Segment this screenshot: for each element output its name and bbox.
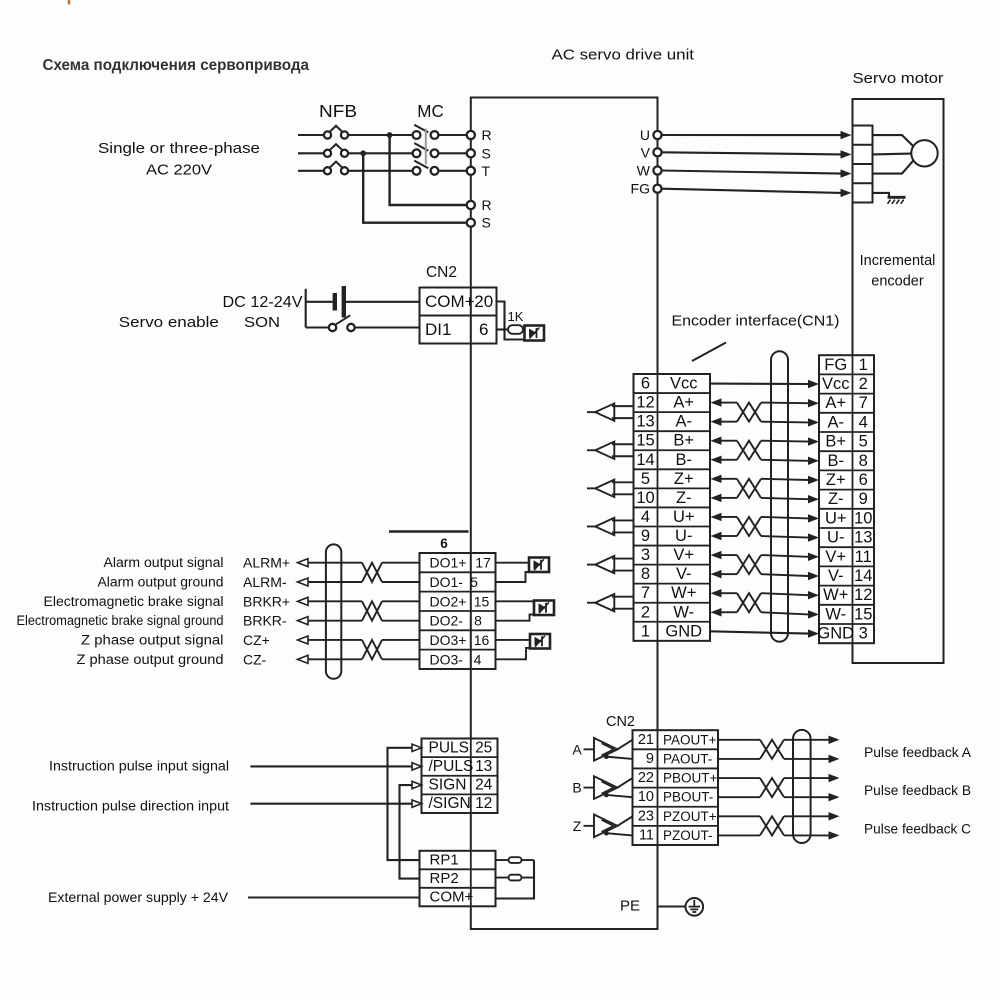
contactor MC linkage [425, 129, 427, 165]
svg-text:CN2: CN2 [606, 714, 635, 730]
svg-text:23: 23 [638, 808, 654, 824]
connector CN2 feedback table [633, 730, 719, 845]
svg-text:ALRM+: ALRM+ [243, 555, 290, 571]
receiver Z [587, 487, 595, 489]
terminal block motor [853, 126, 873, 203]
svg-text:W+: W+ [671, 584, 696, 602]
wire NFB-MC T [348, 170, 413, 172]
svg-text:10: 10 [638, 789, 654, 805]
svg-text:U+: U+ [825, 509, 847, 527]
receiver V [587, 564, 595, 566]
resistor RP1 [496, 859, 509, 861]
svg-text:8: 8 [641, 565, 650, 583]
svg-text:A-: A- [676, 413, 693, 431]
svg-text:B-: B- [828, 452, 845, 470]
wire pin20 loop [497, 302, 525, 340]
svg-text:12: 12 [475, 795, 492, 812]
wire PE [658, 905, 686, 907]
svg-text:9: 9 [859, 490, 868, 508]
wire NFB-MC S [348, 152, 413, 154]
svg-text:BRKR+: BRKR+ [243, 593, 290, 609]
svg-text:DI1: DI1 [425, 320, 451, 339]
receiver B [587, 449, 595, 451]
svg-text:W: W [637, 163, 651, 179]
svg-text:RP1: RP1 [430, 852, 459, 869]
svg-text:8: 8 [859, 452, 868, 470]
connector RP table [420, 851, 496, 907]
svg-text:U-: U- [827, 529, 844, 547]
ground motor frame [888, 196, 906, 199]
svg-text:Pulse feedback C: Pulse feedback C [864, 821, 971, 836]
breaker NFB pole S [324, 150, 331, 157]
svg-text:CZ+: CZ+ [243, 632, 270, 648]
wire pair V encoder side [761, 555, 809, 557]
svg-text:W+: W+ [823, 586, 848, 604]
wire phase R input [298, 134, 324, 136]
svg-text:Instruction pulse input signal: Instruction pulse input signal [49, 758, 229, 774]
svg-text:9: 9 [646, 751, 654, 767]
pin R control [467, 201, 475, 209]
wire pair B drive side [711, 437, 722, 445]
pin S control [467, 219, 475, 227]
connector encoder table [819, 355, 874, 643]
svg-text:Z-: Z- [676, 489, 692, 507]
svg-text:Alarm output signal: Alarm output signal [104, 555, 224, 570]
svg-text:20: 20 [474, 292, 493, 311]
wire pair V drive side [711, 551, 722, 559]
svg-text:SIGN: SIGN [429, 777, 467, 794]
twisted pair V [737, 555, 761, 574]
svg-text:MC: MC [417, 101, 444, 121]
svg-text:11: 11 [639, 827, 654, 843]
shield DO cable [326, 544, 341, 678]
contactor MC pole T [413, 167, 421, 175]
contactor MC pole R [413, 131, 421, 139]
svg-text:Servo motor: Servo motor [853, 70, 944, 87]
svg-text:Z phase output ground: Z phase output ground [77, 652, 224, 667]
svg-text:Pulse feedback A: Pulse feedback A [864, 745, 971, 760]
node S tap [360, 150, 366, 156]
svg-text:Electromagnetic brake signal g: Electromagnetic brake signal ground [17, 613, 224, 628]
svg-text:CZ-: CZ- [243, 651, 267, 667]
twisted pair U [737, 517, 761, 536]
wire ALRM+ [298, 559, 309, 567]
shield encoder cable [771, 351, 788, 641]
battery B1 [306, 301, 333, 303]
wire R control branch [390, 135, 467, 205]
cable mark 6 [389, 530, 469, 532]
pointer line [692, 343, 726, 362]
wire U to motor [662, 134, 841, 136]
wire pair Z drive side [711, 475, 722, 483]
wire W to motor [662, 171, 841, 174]
wire terminal W to winding [873, 161, 914, 174]
svg-text:S: S [482, 145, 491, 161]
wire MC-pin R [438, 134, 466, 136]
svg-text:AC 220V: AC 220V [146, 162, 212, 179]
shield feedback cable [793, 730, 811, 843]
svg-text:3: 3 [859, 625, 868, 643]
svg-text:FG: FG [631, 181, 650, 197]
svg-text:/PULS: /PULS [429, 758, 474, 775]
wire V to motor [662, 152, 841, 154]
wire switch to DI1 [355, 326, 420, 328]
svg-text:U: U [640, 127, 650, 143]
svg-text:ALRM-: ALRM- [243, 574, 287, 590]
svg-text:12: 12 [636, 394, 654, 412]
connector CN2 DO table [420, 553, 496, 669]
svg-text:DO1+: DO1+ [430, 555, 467, 571]
wire external 24V [248, 896, 420, 898]
svg-text:Z: Z [573, 818, 582, 834]
wire MC-pin S [438, 152, 466, 154]
svg-text:PZOUT+: PZOUT+ [663, 809, 717, 824]
svg-text:CN2: CN2 [426, 264, 457, 281]
svg-text:DO2-: DO2- [430, 613, 464, 629]
twisted pair feedback 2 [760, 778, 784, 797]
wire CZ- [298, 655, 309, 663]
svg-text:T: T [482, 163, 491, 179]
svg-text:13: 13 [636, 413, 654, 431]
optocoupler U1 [525, 326, 545, 341]
twisted pair W [737, 593, 761, 612]
twisted pair DO1 [362, 563, 382, 582]
resistor RP2 [496, 877, 509, 879]
breaker NFB pole T [324, 167, 331, 174]
twisted pair feedback 3 [760, 816, 784, 835]
wire pair A encoder side [761, 402, 809, 405]
svg-text:1: 1 [859, 356, 868, 374]
svg-text:DO3+: DO3+ [430, 632, 467, 648]
svg-text:S: S [482, 215, 491, 231]
svg-text:PULS: PULS [429, 739, 470, 756]
wire Vcc encoder [710, 382, 809, 385]
arrow into /SIGN [412, 800, 422, 807]
svg-text:V-: V- [828, 567, 844, 585]
svg-text:10: 10 [636, 489, 654, 507]
svg-text:U+: U+ [673, 508, 695, 526]
pin R drive input [467, 131, 475, 139]
svg-text:15: 15 [636, 432, 654, 450]
svg-text:encoder: encoder [871, 274, 924, 290]
wire pair W drive side [711, 589, 722, 597]
wire terminal V to winding [873, 153, 912, 156]
svg-text:RP2: RP2 [430, 870, 459, 887]
svg-text:B+: B+ [825, 433, 846, 451]
wire feedback pair 1 [718, 739, 760, 741]
svg-text:14: 14 [636, 451, 654, 469]
svg-text:16: 16 [474, 632, 490, 648]
svg-text:SON: SON [244, 314, 280, 331]
svg-text:12: 12 [854, 586, 872, 604]
svg-text:13: 13 [475, 758, 492, 775]
svg-text:DC 12-24V: DC 12-24V [223, 294, 303, 311]
motor winding symbol [911, 140, 937, 166]
svg-text:13: 13 [854, 529, 872, 547]
wire battery to COM+ [346, 301, 420, 303]
wire BRKR+ [298, 597, 309, 605]
svg-text:8: 8 [474, 613, 482, 629]
svg-text:V+: V+ [825, 548, 846, 566]
receiver A [587, 411, 595, 413]
svg-text:B: B [572, 780, 581, 796]
svg-text:7: 7 [641, 584, 650, 602]
wire feedback pair 3 [718, 815, 760, 817]
svg-text:Z phase output signal: Z phase output signal [81, 632, 224, 647]
svg-text:V-: V- [676, 565, 692, 583]
wire pulse direction input [250, 803, 412, 805]
svg-text:PBOUT+: PBOUT+ [663, 771, 718, 786]
optocoupler DO3 [496, 639, 531, 641]
svg-text:A: A [572, 741, 582, 757]
svg-text:Pulse feedback B: Pulse feedback B [864, 783, 971, 798]
svg-text:Vcc: Vcc [670, 375, 698, 393]
svg-text:1K: 1K [508, 309, 524, 324]
twisted pair Z [737, 479, 761, 498]
wire FG to ground [873, 193, 890, 197]
svg-text:Alarm output ground: Alarm output ground [98, 574, 224, 589]
svg-text:A+: A+ [825, 394, 846, 412]
svg-text:AC servo drive unit: AC servo drive unit [552, 47, 695, 64]
svg-text:U-: U- [675, 527, 692, 545]
svg-text:17: 17 [475, 555, 491, 571]
arrow into /PULS [412, 763, 422, 770]
wire phase S input [298, 152, 324, 154]
wire S control branch [363, 153, 467, 222]
connector CN2 servo-enable table [420, 288, 497, 344]
svg-text:Incremental: Incremental [860, 253, 936, 269]
svg-text:COM+: COM+ [430, 889, 474, 906]
svg-text:GND: GND [817, 625, 854, 643]
pin T drive input [467, 167, 475, 175]
twisted pair A [737, 403, 761, 422]
wire pair Z encoder side [761, 479, 809, 480]
svg-text:Single or three-phase: Single or three-phase [98, 140, 260, 157]
svg-text:6: 6 [859, 471, 868, 489]
wire phase T input [298, 170, 324, 172]
svg-text:4: 4 [641, 508, 650, 526]
svg-text:4: 4 [474, 651, 482, 667]
svg-text:Z+: Z+ [826, 471, 846, 489]
optocoupler DO1 [496, 562, 530, 564]
svg-text:Servo enable: Servo enable [119, 314, 219, 331]
svg-text:Instruction pulse direction in: Instruction pulse direction input [32, 798, 229, 814]
svg-text:24: 24 [475, 777, 493, 794]
wire SIGN branch to RP2 [400, 785, 420, 879]
wire PULS branch to RP1 [388, 748, 420, 860]
svg-text:15: 15 [474, 593, 490, 609]
svg-text:Z+: Z+ [674, 470, 694, 488]
svg-text:3: 3 [641, 546, 650, 564]
svg-text:6: 6 [641, 375, 650, 393]
wire BRKR- [298, 617, 309, 625]
svg-text:A-: A- [828, 413, 845, 431]
receiver U [587, 525, 595, 527]
wire ALRM- [298, 578, 309, 586]
svg-text:DO3-: DO3- [430, 651, 464, 667]
svg-text:FG: FG [824, 356, 847, 374]
svg-text:Z-: Z- [828, 490, 844, 508]
svg-text:W-: W- [673, 603, 694, 621]
svg-text:GND: GND [665, 622, 702, 640]
svg-text:6: 6 [440, 536, 448, 551]
wire pair U drive side [711, 513, 722, 521]
arrow into SIGN [412, 781, 422, 788]
svg-text:R: R [482, 127, 492, 143]
svg-text:5: 5 [641, 470, 650, 488]
svg-text:COM+: COM+ [425, 292, 475, 311]
svg-text:V: V [641, 144, 651, 160]
svg-text:5: 5 [470, 574, 478, 590]
svg-text:DO2+: DO2+ [430, 593, 467, 609]
svg-text:A+: A+ [673, 394, 694, 412]
svg-text:Vcc: Vcc [822, 375, 850, 393]
pin S drive input [467, 149, 475, 157]
svg-text:21: 21 [638, 732, 654, 748]
servo motor box [853, 99, 944, 663]
wire pair U encoder side [761, 517, 809, 518]
svg-text:1: 1 [641, 622, 650, 640]
svg-text:14: 14 [854, 567, 872, 585]
wire FG to motor [662, 189, 841, 193]
svg-text:BRKR-: BRKR- [243, 613, 287, 629]
contactor MC pole S [413, 149, 421, 157]
svg-text:11: 11 [855, 548, 872, 566]
optocoupler DO2 [496, 600, 535, 602]
svg-text:2: 2 [641, 603, 650, 621]
svg-text:Схема подключения сервопривода: Схема подключения сервопривода [43, 57, 310, 74]
wire terminal U to winding [873, 135, 914, 146]
receiver W [587, 602, 595, 604]
breaker NFB pole R [324, 131, 331, 138]
svg-text:Encoder interface(CN1): Encoder interface(CN1) [672, 314, 840, 330]
svg-text:R: R [482, 197, 492, 213]
svg-text:B+: B+ [673, 432, 694, 450]
arrow into PULS [412, 744, 422, 751]
svg-text:25: 25 [475, 739, 492, 756]
svg-text:PAOUT-: PAOUT- [663, 751, 712, 766]
svg-text:B-: B- [676, 451, 693, 469]
svg-text:/SIGN: /SIGN [429, 795, 471, 812]
svg-text:22: 22 [638, 770, 654, 786]
svg-text:NFB: NFB [319, 101, 357, 121]
switch SON [306, 326, 329, 328]
decor [68, 0, 71, 5]
svg-text:6: 6 [479, 320, 488, 339]
svg-text:Electromagnetic brake signal: Electromagnetic brake signal [44, 594, 224, 609]
twisted pair DO2 [362, 601, 382, 620]
svg-text:7: 7 [859, 394, 868, 412]
twisted pair feedback 1 [760, 740, 784, 759]
wire MC-pin T [438, 170, 466, 172]
svg-text:PAOUT+: PAOUT+ [663, 732, 717, 747]
svg-text:External power supply + 24V: External power supply + 24V [48, 889, 229, 905]
svg-text:PZOUT-: PZOUT- [663, 828, 713, 843]
svg-text:9: 9 [641, 527, 650, 545]
AC servo drive unit box [471, 98, 658, 930]
svg-text:4: 4 [859, 413, 868, 431]
twisted pair B [737, 441, 761, 460]
connector CN1 drive table [634, 374, 711, 641]
wire pair B encoder side [761, 440, 809, 443]
wire CZ+ [298, 636, 309, 644]
wire supply vertical [305, 289, 307, 328]
svg-text:DO1-: DO1- [430, 574, 464, 590]
wire pair W encoder side [761, 593, 809, 595]
wire NFB-MC R [348, 134, 413, 136]
ground PE symbol [686, 898, 704, 916]
wire pair A drive side [711, 398, 722, 406]
twisted pair DO3 [362, 640, 382, 659]
node R tap [387, 132, 393, 138]
svg-text:V+: V+ [673, 546, 694, 564]
svg-text:10: 10 [854, 509, 872, 527]
wire feedback pair 2 [718, 777, 760, 779]
wire RP to COM+ [496, 860, 535, 898]
connector CN2 pulse table [422, 739, 498, 813]
svg-text:2: 2 [859, 375, 868, 393]
svg-text:15: 15 [854, 605, 872, 623]
svg-text:PBOUT-: PBOUT- [663, 790, 713, 805]
svg-text:W-: W- [825, 605, 846, 623]
wire pulse input signal [250, 765, 412, 767]
wire GND encoder [710, 631, 809, 633]
svg-text:5: 5 [859, 433, 868, 451]
svg-text:PE: PE [620, 898, 640, 915]
